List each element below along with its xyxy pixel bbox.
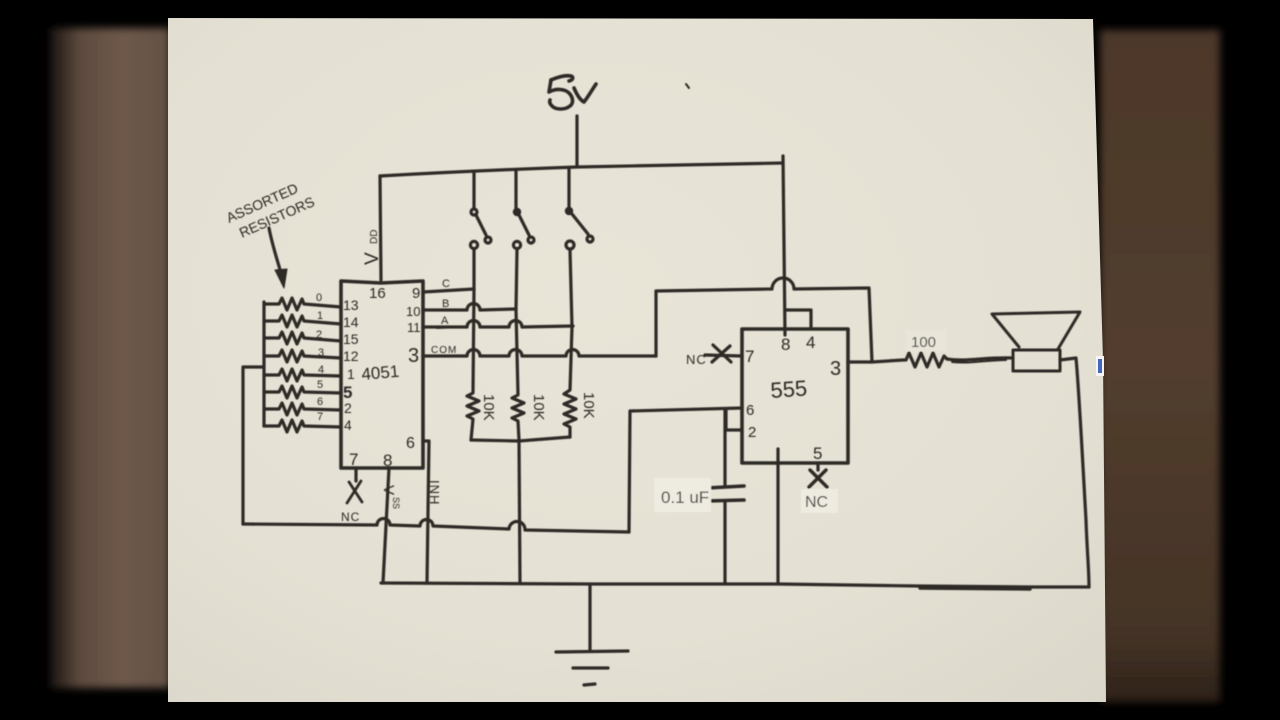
resistor R100 (903, 353, 947, 367)
wire INH lead (4051 pin 6) (423, 441, 429, 583)
svg-text:9: 9 (412, 285, 420, 302)
svg-text:V: V (380, 485, 397, 495)
svg-text:2: 2 (748, 424, 756, 441)
switch S2 (513, 171, 534, 310)
svg-text:6: 6 (317, 396, 323, 408)
svg-text:1: 1 (347, 366, 355, 382)
svg-text:COM: COM (431, 345, 457, 356)
svg-text:12: 12 (343, 348, 359, 364)
svg-text:V: V (362, 252, 383, 265)
label channel numbers 0-7 (316, 292, 324, 423)
svg-text:2: 2 (316, 329, 322, 341)
svg-text:4: 4 (806, 333, 815, 352)
node 5V label (549, 76, 596, 109)
label VDD (362, 230, 383, 265)
svg-text:NC: NC (341, 510, 360, 524)
wire COM line from 4051 pin 3 (hops over three columns) (423, 350, 656, 356)
svg-text:C: C (442, 278, 450, 290)
svg-text:5: 5 (813, 444, 822, 463)
svg-text:3: 3 (408, 345, 419, 367)
wire COM riser and feedback to pin 3 (big hop over supply) (656, 278, 872, 362)
svg-text:SS: SS (391, 497, 401, 509)
switch S3 (566, 168, 593, 327)
background: left brown band (50, 28, 170, 688)
resistor bank R1 (264, 315, 341, 327)
svg-text:0.1 uF: 0.1 uF (661, 488, 709, 507)
svg-text:0: 0 (316, 292, 322, 304)
svg-text:8: 8 (383, 451, 392, 470)
label 4051 pin numbers (343, 285, 421, 470)
wire 555 pin4 loop (786, 310, 811, 329)
background: right brown band (1100, 30, 1220, 702)
svg-text:B: B (442, 298, 449, 310)
label 100 typed (906, 330, 946, 351)
UI cursor artifact at paper edge (1096, 356, 1104, 376)
paper sheet (168, 18, 1106, 702)
wire 5V top rail (380, 163, 783, 176)
wire resistor to speaker (947, 358, 1013, 360)
svg-text:11: 11 (407, 320, 421, 335)
speaker LS1 (992, 312, 1080, 371)
svg-text:8: 8 (781, 335, 790, 354)
svg-text:14: 14 (343, 314, 359, 330)
no-connect X at 4051 pin 7 (347, 481, 362, 503)
wire C line (4051 pin 9 to S1) (423, 289, 474, 292)
ground symbol (556, 584, 628, 685)
svg-text:7: 7 (317, 411, 323, 423)
svg-text:10K: 10K (530, 394, 547, 421)
resistor bank R2 (264, 332, 341, 344)
resistor bank R3 (264, 350, 341, 362)
capacitor C1 0.1uF (707, 486, 744, 501)
wire pin2 jog (726, 409, 742, 430)
wire B line (pin 10 to S2, hop over S1 column) (423, 304, 516, 310)
svg-text:6: 6 (406, 435, 415, 452)
label 10K x3 (480, 392, 597, 421)
resistor bank R7 (264, 420, 341, 432)
wire 555 supply vertical (rail to pins 8/4) (783, 156, 785, 335)
svg-text:5: 5 (317, 379, 323, 391)
wire left loop (bank to timing bus) (243, 367, 264, 524)
wire timing bus (hops over Vss, INH, R2 ground leg) (243, 519, 629, 533)
svg-text:A: A (441, 315, 449, 327)
resistor bank R0 (264, 298, 341, 310)
svg-text:2: 2 (344, 400, 352, 416)
svg-text:7: 7 (745, 347, 754, 366)
wire Vss ground lead (383, 468, 389, 583)
svg-text:15: 15 (343, 331, 359, 347)
stray pen dot (686, 84, 689, 88)
wire speaker to ground bus (1060, 358, 1089, 587)
svg-text:INH: INH (427, 480, 442, 505)
wire capacitor top lead (723, 410, 726, 485)
wire 555 pin3 output line (848, 360, 903, 362)
wire 10K bottoms connect (471, 437, 570, 441)
svg-text:NC: NC (686, 352, 707, 367)
wire A line (pin 11 to S3, hops) (423, 321, 573, 328)
resistor R10K-2 (512, 310, 524, 440)
label C B A COM (431, 278, 457, 356)
resistor bank R5 (264, 386, 341, 398)
svg-text:10: 10 (406, 304, 420, 319)
svg-text:4: 4 (318, 364, 324, 376)
svg-text:10K: 10K (580, 392, 597, 419)
svg-text:1: 1 (317, 310, 323, 322)
label NC typed at 555 pin5 (801, 489, 838, 513)
svg-text:555: 555 (770, 375, 808, 403)
svg-text:4051: 4051 (361, 362, 400, 384)
wire 4051 pin7 stub (354, 468, 357, 481)
resistor R10K-1 (467, 289, 479, 440)
svg-text:7: 7 (349, 450, 358, 469)
wire 555 pin1 ground lead (776, 449, 779, 583)
resistor R10K-3 (564, 327, 576, 437)
svg-text:3: 3 (830, 358, 841, 380)
label 0.1 uF (typed) (654, 478, 711, 512)
arrow to resistor bank (269, 228, 282, 276)
wire 555 pin7 stub (705, 355, 742, 356)
label ASSORTED RESISTORS (224, 180, 317, 241)
555 pin1 tick (777, 449, 780, 462)
wire capacitor bottom lead (723, 502, 726, 583)
resistor bank R6 (264, 403, 341, 415)
resistor bank R4 (264, 369, 341, 381)
wire 5V stem (575, 116, 578, 166)
svg-text:13: 13 (343, 297, 359, 313)
resistor bank bus wire (262, 302, 265, 426)
no-connect X at 555 pin 7 (712, 345, 731, 362)
wire R2 column to ground bus (519, 441, 520, 583)
svg-text:16: 16 (369, 285, 386, 302)
label 555 pins (745, 333, 841, 463)
IC U2 555 box (742, 329, 848, 463)
svg-text:NC: NC (805, 494, 828, 511)
IC U1 4051 box (341, 281, 423, 468)
wire VDD line to 4051 pin 16 (380, 176, 381, 280)
wire ground bus (381, 583, 1089, 587)
svg-text:6: 6 (746, 402, 754, 419)
switch S1 (470, 172, 491, 289)
label Vss (380, 485, 401, 509)
svg-text:DD: DD (369, 230, 380, 244)
wire 555 pin5 stub (816, 463, 819, 470)
wire timing bus riser to pin 6 line (629, 408, 742, 532)
no-connect X at 555 pin 5 (809, 470, 827, 487)
svg-text:3: 3 (318, 347, 324, 359)
svg-text:10K: 10K (480, 394, 497, 421)
svg-text:100: 100 (911, 334, 936, 351)
underline under A (437, 327, 458, 328)
svg-text:4: 4 (344, 417, 352, 433)
